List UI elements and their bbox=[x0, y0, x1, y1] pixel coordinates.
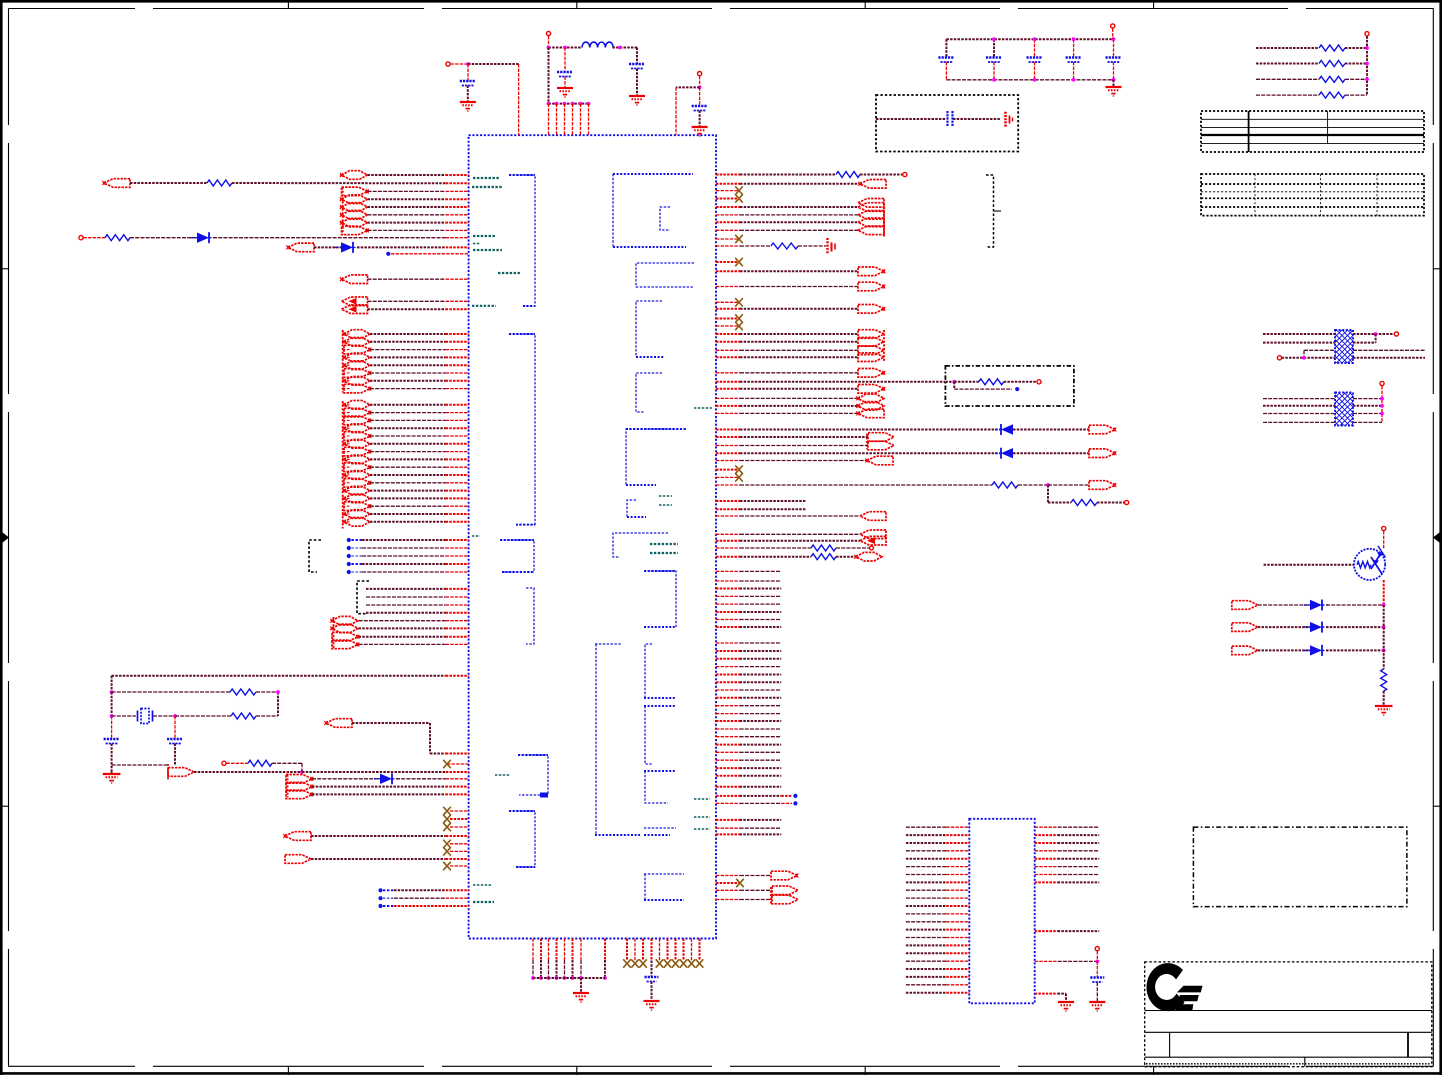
bus B connector + wire 10 bbox=[344, 479, 370, 488]
right stub wire y760.2 bbox=[716, 759, 740, 761]
right stub wire y729 bbox=[716, 728, 740, 730]
right stub wire y690 bbox=[716, 689, 740, 691]
U2 left pin wire 12 bbox=[906, 913, 946, 915]
right stub wire y581 bbox=[716, 580, 740, 582]
U2 left pin wire 2 bbox=[906, 834, 946, 836]
U2 ground pin bbox=[1035, 993, 1058, 995]
blue-dot rows y540-572 with bracket bbox=[309, 540, 321, 572]
bus bracket B bbox=[342, 401, 344, 529]
U2 left pin wire 8 bbox=[906, 881, 946, 883]
bus A connector + wire 2 bbox=[344, 345, 370, 354]
right stub wire y643 bbox=[716, 642, 740, 644]
right stub wire y834.4 bbox=[716, 833, 740, 835]
U2 left pin wire 17 bbox=[906, 952, 946, 954]
right row y308 bbox=[716, 308, 740, 310]
U1 bottom pin x659.5 bbox=[659, 939, 661, 961]
right stub wire y571.4 bbox=[716, 570, 740, 572]
connector + wire y207 bbox=[342, 203, 368, 212]
bus B connector + wire 11 bbox=[344, 486, 370, 495]
capacitor bank C10-C14 bbox=[946, 38, 1113, 40]
right resistor rows y548-556 bbox=[716, 547, 740, 549]
bus B connector + wire 1 bbox=[344, 408, 370, 417]
right stub wire y775.8 bbox=[716, 775, 740, 777]
right stub wire y697.8 bbox=[716, 697, 740, 699]
bus B connector + wire 13 bbox=[344, 502, 370, 511]
right stub wire y736.7 bbox=[716, 736, 740, 738]
U1 bottom ground bus bbox=[533, 977, 605, 979]
bus B connector + wire 14 bbox=[344, 510, 370, 519]
right stub wire y682.2 bbox=[716, 681, 740, 683]
conn cluster y620-644 bbox=[333, 617, 335, 650]
right stub wire y744.6 bbox=[716, 744, 740, 746]
U1 bottom pin x643 bbox=[642, 939, 644, 961]
U2 decoupling cap bbox=[1035, 960, 1058, 962]
U1 bottom pin x683.5 bbox=[683, 939, 685, 961]
bus A connector + wire 0 bbox=[344, 330, 370, 339]
right row y183 conn bbox=[716, 183, 740, 185]
right stub wires y501-509 bbox=[716, 500, 740, 502]
bus A connector + wire 5 bbox=[344, 369, 370, 378]
U1 bottom pin x541 bbox=[540, 939, 542, 961]
right row y875 bbox=[716, 875, 740, 877]
bus B connector + wire 6 bbox=[344, 447, 370, 456]
U2 right pin wire 1 bbox=[1035, 826, 1058, 828]
right stub wire y752.3 bbox=[716, 751, 740, 753]
crystal oscillator section bbox=[112, 675, 446, 677]
bus B connector + wire 2 bbox=[344, 416, 370, 425]
bus A connector + wire 3 bbox=[344, 353, 370, 362]
decoupling cap left bbox=[446, 62, 450, 66]
U1 bottom pin x533 bbox=[532, 939, 534, 961]
U1 bottom pin x635 bbox=[634, 939, 636, 961]
U2 right pin y931 bbox=[1035, 930, 1058, 932]
U1 bottom pin x605 bbox=[604, 939, 606, 961]
right stub wire y795.9 bbox=[716, 795, 740, 797]
bus A connector + wire 7 bbox=[344, 384, 370, 393]
right conn pair y887-903 bbox=[770, 887, 772, 904]
bus A connector + wire 1 bbox=[344, 338, 370, 347]
right nc stubs y190-198 bbox=[716, 190, 739, 192]
power inductor group bbox=[546, 31, 550, 35]
ferrite network FB2 bbox=[1335, 393, 1353, 426]
U1 bottom pin x667.5 bbox=[667, 939, 669, 961]
bus B connector + wire 7 bbox=[344, 455, 370, 464]
U2 left pin wire 1 bbox=[906, 826, 946, 828]
U2 right pin wire 3 bbox=[1035, 842, 1058, 844]
dashed box 2 with resistor bbox=[716, 381, 740, 383]
right stub wire y713.6 bbox=[716, 713, 740, 715]
conn bidir row y175 bbox=[342, 171, 368, 180]
right stub wire y786.7 bbox=[716, 786, 740, 788]
title block bbox=[1145, 962, 1432, 1067]
conn + resistor row y183 bbox=[104, 179, 130, 188]
dashed box crystal filter bbox=[876, 95, 1018, 152]
U2 left pin wire 20 bbox=[906, 976, 946, 978]
U1 left pin-group brackets bbox=[509, 175, 535, 306]
connector + wire y191.4 bbox=[342, 187, 368, 196]
phototransistor Q1 bbox=[1354, 549, 1385, 580]
right stub wire y588.5 bbox=[716, 588, 740, 590]
right stub wire y619.5 bbox=[716, 619, 740, 621]
conn row y723 to 753 bbox=[326, 719, 352, 728]
U1 internal pin labels bbox=[473, 177, 500, 179]
U2 right pin wire 4 bbox=[1035, 850, 1058, 852]
sheet border frame bbox=[0, 0, 1442, 3]
U1 bottom pin x564.5 bbox=[564, 939, 566, 961]
bus B connector + wire 0 bbox=[344, 401, 370, 410]
right row y460 bbox=[716, 460, 740, 462]
right nc stub y239 bbox=[716, 238, 739, 240]
bus B connector + wire 4 bbox=[344, 432, 370, 441]
U2 right pin wire 8 bbox=[1035, 881, 1058, 883]
U2 left pin wire 16 bbox=[906, 944, 946, 946]
nc stub y764 bbox=[447, 763, 469, 765]
right stub wire y612 bbox=[716, 611, 740, 613]
conn row y309 bbox=[342, 305, 368, 314]
IC U2 body bbox=[969, 819, 1034, 1004]
right stub wire y651 bbox=[716, 650, 740, 652]
right conn cluster y202-236 bbox=[883, 203, 885, 237]
right stub wire y803.4 bbox=[716, 802, 740, 804]
nc stubs y811-866 bbox=[450, 810, 469, 812]
right resistor chain y485-502 bbox=[716, 484, 740, 486]
decoupling cap right bbox=[698, 72, 702, 76]
resistor-diode row y237 bbox=[79, 236, 83, 240]
conn row y301 bbox=[342, 297, 368, 306]
right stub wire y705.7 bbox=[716, 705, 740, 707]
right nc stub y302 bbox=[716, 301, 739, 303]
pullup resistor bank bbox=[1256, 47, 1319, 49]
blue-dot rows y890-906 bbox=[378, 888, 382, 892]
U2 right pin wire 2 bbox=[1035, 834, 1058, 836]
right stub wire y674.5 bbox=[716, 674, 740, 676]
Cirrus Logic logo bbox=[1146, 963, 1184, 1011]
bus bracket A bbox=[342, 330, 344, 393]
right nc stubs y469-477 bbox=[716, 469, 739, 471]
bus A connector + wire 4 bbox=[344, 361, 370, 370]
right nc stub y883 bbox=[716, 882, 740, 884]
U2 left pin wire 5 bbox=[906, 858, 946, 860]
right nc stubs y318-326 bbox=[716, 318, 739, 320]
right conn bundle y330-362 bbox=[883, 330, 885, 362]
right stub wire y721 bbox=[716, 720, 740, 722]
U1 bottom pin x675.5 bbox=[675, 939, 677, 961]
U2 left pin wire 18 bbox=[906, 960, 946, 962]
right stub wire y819.9 bbox=[716, 819, 740, 821]
conn row y279 bbox=[342, 275, 368, 284]
table 1 bbox=[1201, 111, 1424, 152]
right diode row y429 bbox=[716, 429, 740, 431]
bus B connector + wire 15 bbox=[344, 518, 370, 527]
capacitor C-sub + ground GND-B bbox=[651, 961, 653, 978]
U1 bottom pin x699.5 bbox=[699, 939, 701, 961]
U2 left pin wire 9 bbox=[906, 889, 946, 891]
right rows y534-540 bbox=[716, 533, 740, 535]
nc blue dot row y253 bbox=[386, 252, 390, 256]
U1 bottom pin x691.5 bbox=[691, 939, 693, 961]
bus B connector + wire 3 bbox=[344, 424, 370, 433]
connector + wire y222.6 bbox=[342, 218, 368, 227]
U2 left pin wire 11 bbox=[906, 905, 946, 907]
U1 bottom pin x651.5 bbox=[651, 939, 653, 961]
ground GND-A bbox=[580, 978, 582, 992]
U2 left pin wire 19 bbox=[906, 968, 946, 970]
U1 bottom pin x627 bbox=[626, 939, 628, 961]
right stub wire y596.4 bbox=[716, 595, 740, 597]
U2 left pin wire 6 bbox=[906, 866, 946, 868]
U1 bottom pin x581 bbox=[580, 939, 582, 961]
U2 left pin wire 22 bbox=[906, 992, 946, 994]
right row y516 bbox=[716, 515, 740, 517]
notes box bbox=[1193, 827, 1407, 907]
conn row y836 bbox=[285, 832, 311, 841]
bracket rows y588-612 bbox=[357, 581, 369, 614]
connector + wire y214.8 bbox=[342, 211, 368, 220]
right conn cluster y388-413 bbox=[716, 388, 740, 390]
connector + wire y199.2 bbox=[342, 195, 368, 204]
conn cluster bracket bbox=[342, 187, 344, 235]
right stub wire y658.7 bbox=[716, 658, 740, 660]
U2 right pin wire 6 bbox=[1035, 866, 1058, 868]
right conn pair y433-448 bbox=[866, 434, 868, 449]
U2 left pin wire 3 bbox=[906, 842, 946, 844]
U2 left pin wire 10 bbox=[906, 897, 946, 899]
connector + wire y230.4 bbox=[342, 226, 368, 235]
right stub wire y768.1 bbox=[716, 767, 740, 769]
right stub nc dot y803 bbox=[781, 802, 792, 804]
right stub wire y604.1 bbox=[716, 603, 740, 605]
U1 right pin-group brackets bbox=[613, 173, 693, 175]
conn row y859 bbox=[285, 855, 311, 864]
U2 left pin wire 13 bbox=[906, 921, 946, 923]
bus A connector + wire 6 bbox=[344, 377, 370, 386]
right row y286 bbox=[716, 286, 740, 288]
IC U1 body bbox=[469, 135, 716, 938]
conn + diode row y247 bbox=[288, 243, 314, 252]
bus B connector + wire 5 bbox=[344, 440, 370, 449]
bus B connector + wire 8 bbox=[344, 463, 370, 472]
U2 right pin wire 5 bbox=[1035, 858, 1058, 860]
right stub wire y627 bbox=[716, 626, 740, 628]
right row y246 resistor to term bbox=[716, 245, 740, 247]
U2 left pin wire 7 bbox=[906, 874, 946, 876]
right stub wire y666.6 bbox=[716, 666, 740, 668]
bus B connector + wire 9 bbox=[344, 471, 370, 480]
U2 left pin wire 15 bbox=[906, 937, 946, 939]
U1 bottom pin x548.5 bbox=[548, 939, 550, 961]
right stub nc dot y795 bbox=[781, 795, 792, 797]
right nc stub y262 bbox=[716, 261, 739, 263]
U2 right pin wire 7 bbox=[1035, 874, 1058, 876]
black group bracket right bbox=[986, 175, 994, 247]
right row y271 bbox=[716, 270, 740, 272]
LED diodes D5-D7 with resistor bbox=[1232, 601, 1258, 610]
U2 left pin wire 21 bbox=[906, 984, 946, 986]
table 2 bbox=[1201, 174, 1424, 216]
ferrite network FB1 bbox=[1335, 330, 1353, 363]
right row y174 resistor bbox=[716, 174, 740, 176]
U1 bottom pin x556.5 bbox=[556, 939, 558, 961]
U2 left pin wire 14 bbox=[906, 929, 946, 931]
U1 bottom pin x572.5 bbox=[572, 939, 574, 961]
U2 left pin wire 4 bbox=[906, 850, 946, 852]
right diode row y453 bbox=[716, 452, 740, 454]
bus B connector + wire 12 bbox=[344, 494, 370, 503]
Q1 leads bbox=[1382, 526, 1386, 530]
right row y372 bbox=[716, 372, 740, 374]
right stub wire y828.2 bbox=[716, 827, 740, 829]
conn cluster y778-794 bbox=[287, 771, 289, 798]
